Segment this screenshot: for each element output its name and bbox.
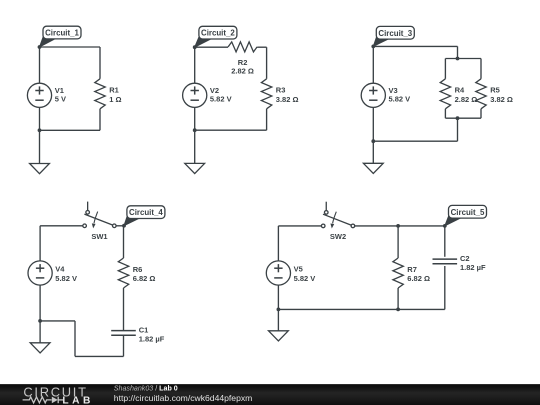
svg-text:5.82 V: 5.82 V [389,95,411,104]
node parallel top junction [456,57,460,61]
svg-text:R5: R5 [490,86,500,95]
svg-text:Circuit_2: Circuit_2 [201,29,235,38]
wire circuit1 top horizontal [40,46,101,48]
wire circuit5 R7 bottom lead [397,288,399,309]
wire circuit5 bottom horizontal [278,308,444,310]
svg-text:C2: C2 [460,254,470,263]
svg-text:R6: R6 [133,265,143,274]
logo resistor-diode glyph [23,397,63,404]
node circuit2 bottom junction [193,128,197,132]
voltage source V4 [28,261,77,285]
svg-text:V5: V5 [294,264,303,273]
node circuit1 bottom junction [38,128,42,132]
wire circuit2 source to ground [194,107,196,163]
wire circuit5 source bottom lead [277,285,279,331]
ground GND4 [30,343,50,353]
node Circuit_4 net node [122,224,126,228]
ground GND3 [363,163,383,173]
node circuit5 bottom junction [277,308,281,312]
svg-text:Circuit_4: Circuit_4 [129,208,163,217]
node circuit5 R7 bottom junction [396,308,400,312]
voltage source V5 [266,261,315,285]
resistor R6 [118,258,155,288]
wire circuit2 top left segment [195,46,228,48]
wire circuit5 R7 top lead [397,226,399,258]
wire circuit3 parallel top bar [445,58,481,60]
voltage source V1 [27,83,66,107]
svg-text:R4: R4 [455,86,465,95]
ground GND5 [269,331,289,341]
node Circuit_5 net node [443,224,447,228]
wire R5 top lead [480,59,482,79]
node Circuit_3 net node [371,45,375,49]
svg-text:R3: R3 [276,86,286,95]
net flag Circuit_2 [195,26,237,47]
footer url line [114,393,253,403]
wire circuit3 left branch [372,46,374,83]
wire circuit4 R6 to C1 [123,288,125,331]
voltage source V3 [361,83,410,107]
footer title line [114,384,178,392]
svg-text:SW1: SW1 [91,232,107,241]
svg-text:V4: V4 [55,264,65,273]
wire circuit3 down from parallel pair [457,118,459,141]
wire circuit3 bottom horizontal [373,140,457,142]
svg-text:C1: C1 [139,326,149,335]
capacitor C2 [433,254,487,272]
node circuit4 bottom junction [38,319,42,323]
svg-text:6.82 Ω: 6.82 Ω [407,274,430,283]
voltage source V2 [183,83,232,107]
svg-text:5.82 V: 5.82 V [294,274,316,283]
net flag Circuit_1 [40,26,82,47]
svg-text:V1: V1 [55,86,64,95]
svg-text:R7: R7 [407,265,417,274]
wire circuit1 right branch bottom [99,109,101,131]
wire circuit2 right branch bottom [266,109,268,130]
node circuit3 bottom junction [371,139,375,143]
svg-text:LAB: LAB [62,396,93,405]
wire circuit2 bottom horizontal [195,129,267,131]
resistor R1 [95,79,122,109]
wire R5 bottom lead [480,109,482,118]
ground GND2 [185,163,205,173]
wire switch SW1 to node [116,225,123,227]
svg-text:SW2: SW2 [330,232,346,241]
resistor R2 [228,42,257,76]
wire circuit5 source to switch [278,226,321,261]
net flag Circuit_4 [124,206,165,226]
wire R4 top lead [444,59,446,79]
wire circuit1 left branch [39,47,41,83]
svg-text:2.82 Ω: 2.82 Ω [231,66,254,75]
wire R4 bottom lead [444,109,446,118]
wire circuit2 left branch [194,47,196,83]
svg-text:6.82 Ω: 6.82 Ω [133,274,156,283]
net flag Circuit_5 [445,205,487,226]
svg-text:Circuit_5: Circuit_5 [451,208,485,217]
net flag Circuit_3 [373,26,414,46]
footer bar [0,384,540,405]
switch SW1 [83,202,116,241]
wire circuit3 top horizontal [373,45,457,47]
resistor R3 [261,79,298,109]
svg-text:3.82 Ω: 3.82 Ω [276,95,299,104]
svg-text:V3: V3 [389,86,398,95]
resistor R5 [476,79,513,109]
wire circuit4 source bottom lead [39,285,41,343]
node Circuit_1 net node [38,45,42,49]
wire circuit1 source to ground [39,107,41,163]
svg-text:3.82 Ω: 3.82 Ω [490,95,513,104]
wire circuit4 C1 bottom to source [40,321,123,357]
svg-text:Shashank03 / Lab 0: Shashank03 / Lab 0 [114,384,178,392]
logo word LAB [62,396,93,405]
svg-text:Circuit_3: Circuit_3 [378,29,412,38]
svg-text:1.82 µF: 1.82 µF [139,335,165,344]
svg-text:2.82 Ω: 2.82 Ω [455,95,478,104]
svg-text:V2: V2 [210,86,219,95]
wire circuit3 source to ground [372,107,374,163]
wire circuit3 down to parallel pair [457,46,459,58]
resistor R4 [440,79,477,109]
svg-text:1.82 µF: 1.82 µF [460,263,486,272]
wire circuit5 C2 bottom lead [444,266,446,309]
node parallel bottom junction [456,116,460,120]
wire circuit4 source to switch [40,226,83,261]
svg-text:Circuit_1: Circuit_1 [45,29,79,38]
wire circuit5 switch to C2 branch [355,225,445,227]
capacitor C1 [111,326,165,344]
wire circuit1 bottom horizontal [40,129,101,131]
wire circuit2 top right segment [257,47,266,79]
resistor R7 [393,258,430,288]
CircuitLab logo word CIRCUIT [23,385,87,400]
wire circuit4 R6 top lead [123,226,125,258]
svg-text:5.82 V: 5.82 V [210,95,232,104]
node circuit5 R7 top junction [396,224,400,228]
switch SW2 [321,202,354,241]
wire circuit1 right branch top [99,47,101,79]
ground GND1 [30,164,50,174]
svg-text:http://circuitlab.com/cwk6d44p: http://circuitlab.com/cwk6d44pfepxm [114,393,253,403]
svg-text:5 V: 5 V [55,95,66,104]
node Circuit_2 net node [193,45,197,49]
wire circuit3 parallel bottom bar [445,117,481,119]
svg-text:R1: R1 [109,86,119,95]
svg-text:5.82 V: 5.82 V [55,274,77,283]
wire circuit5 C2 top lead [444,226,446,257]
svg-text:1 Ω: 1 Ω [109,95,121,104]
